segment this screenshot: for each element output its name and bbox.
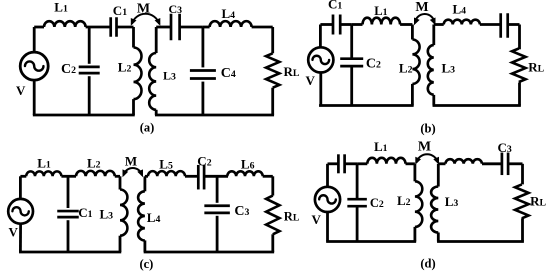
svg-text:L3: L3 (163, 69, 176, 83)
wire (b) L4 to cap (480, 23, 501, 26)
wire (c) L5 to C2 (185, 175, 198, 178)
wire (a) top from source to L1 (34, 26, 44, 29)
capacitor C3 (c) (204, 204, 230, 207)
svg-text:L4: L4 (222, 6, 236, 21)
capacitor C2 (b) (340, 57, 363, 60)
wire (a) L3 bottom (155, 110, 158, 115)
coil L3 (d) (437, 164, 440, 187)
svg-text:L3: L3 (445, 194, 459, 209)
wire (c) top L4 to L5 (145, 175, 148, 178)
wire (c) top to L1 (20, 175, 26, 178)
wire (b) top to C1 (320, 23, 333, 26)
svg-text:C1: C1 (78, 205, 92, 220)
capacitor C2 (c) (197, 165, 200, 190)
svg-text:L2: L2 (118, 60, 132, 75)
svg-text:V: V (312, 212, 322, 227)
mutual coupling M (a) (132, 14, 160, 24)
AC source V (d) (315, 187, 340, 212)
wire (b) right lower (518, 83, 521, 106)
wire (c) L1 to node (61, 175, 76, 178)
wire (a) L2 bottom (132, 99, 135, 115)
svg-text:RL: RL (530, 194, 546, 209)
coil L3 (b) (432, 25, 435, 46)
resistor RL (c) (266, 196, 279, 235)
wire (a) top C3 to node (180, 26, 203, 29)
wire (c) left top (19, 176, 22, 199)
svg-text:L3: L3 (442, 60, 456, 75)
capacitor C2 (d) (347, 198, 367, 201)
wire (a) node to L4 (203, 26, 210, 29)
svg-text:C1: C1 (113, 3, 127, 18)
wire (b) left top (319, 25, 322, 49)
svg-text:L5: L5 (159, 156, 173, 171)
AC source V (a) (20, 52, 48, 80)
wire (c) C1 branch lower (67, 220, 70, 252)
wire (c) C2 to node (204, 175, 228, 178)
inductor L1 (b) (363, 18, 401, 25)
svg-text:M: M (418, 139, 431, 154)
svg-text:L1: L1 (37, 155, 51, 170)
coil L3 (c) (119, 176, 122, 189)
wire (d) C3 to corner (508, 162, 522, 165)
svg-text:(b): (b) (420, 121, 435, 135)
svg-text:(c): (c) (139, 257, 153, 271)
svg-text:V: V (9, 225, 19, 240)
resistor RL (d) (515, 184, 529, 218)
capacitor C1 (d) (337, 154, 340, 173)
wire (a) right upper (271, 27, 274, 53)
svg-text:C3: C3 (498, 140, 512, 155)
svg-text:M: M (415, 0, 428, 15)
wire (d) right lower (521, 218, 524, 241)
svg-text:(a): (a) (140, 121, 155, 135)
wire (d) L3 bottom (437, 233, 440, 242)
capacitor C5 (b) (499, 13, 502, 38)
svg-text:C3: C3 (169, 2, 183, 16)
wire (a) C4 branch upper (201, 27, 204, 67)
wire (b) L3 bottom (432, 95, 435, 106)
svg-text:L1: L1 (54, 0, 68, 15)
inductor L1 (d) (367, 158, 405, 164)
wire (b) L1 to L2 (400, 23, 412, 26)
wire (b) C2 branch upper (350, 25, 353, 58)
wire (c) bottom secondary (144, 251, 275, 254)
svg-text:RL: RL (284, 64, 300, 79)
wire (b) right upper (518, 25, 521, 50)
svg-text:L3: L3 (100, 206, 114, 221)
wire (c) right upper (271, 176, 274, 195)
wire (a) bottom primary (33, 114, 135, 117)
svg-text:M: M (125, 153, 137, 168)
wire (a) left top (33, 27, 36, 52)
mutual coupling M (b) (415, 14, 435, 24)
capacitor C1 (a) (109, 17, 112, 37)
capacitor C1 (b) (332, 15, 335, 35)
wire (d) L1 to L2 (406, 162, 415, 165)
svg-text:V: V (16, 83, 26, 98)
wire (d) bottom primary (326, 240, 416, 243)
svg-text:C2: C2 (61, 62, 76, 77)
wire (d) L4 to C3 (482, 162, 502, 165)
svg-text:C2: C2 (197, 154, 211, 169)
svg-text:(d): (d) (420, 256, 435, 270)
wire (a) C4 branch lower (201, 82, 204, 115)
coil L3 (a) (155, 27, 158, 53)
wire (d) top L3 to L4 (438, 162, 445, 165)
AC source V (c) (8, 199, 33, 224)
wire (a) C2 branch upper (88, 27, 91, 64)
svg-text:C4: C4 (221, 66, 236, 81)
wire (a) top L4 to corner (252, 26, 273, 29)
svg-text:RL: RL (528, 60, 544, 75)
wire (d) cap to node (344, 162, 357, 165)
wire (d) left top (326, 164, 329, 188)
capacitor C2 (a) (79, 65, 100, 68)
svg-text:C2: C2 (366, 56, 381, 71)
wire (a) left bottom (33, 80, 36, 115)
coil L2 (b) (411, 25, 414, 40)
wire (d) C2 branch upper (356, 164, 359, 198)
svg-text:M: M (137, 1, 150, 16)
wire (b) node to L1 (352, 23, 363, 26)
mutual coupling M (d) (416, 154, 438, 163)
coil L4 (c) (143, 176, 146, 191)
svg-text:C2: C2 (370, 196, 384, 210)
svg-text:C1: C1 (328, 0, 342, 12)
wire (c) L6 to corner (263, 175, 273, 178)
svg-text:L4: L4 (147, 210, 161, 225)
inductor L4 (b) (444, 20, 480, 25)
wire (d) node to L1 (357, 162, 367, 165)
svg-text:L6: L6 (241, 156, 255, 171)
svg-text:L2: L2 (397, 193, 411, 208)
svg-text:V: V (306, 73, 316, 88)
wire (c) left bottom (19, 223, 22, 252)
wire (d) right upper (521, 164, 524, 185)
coil L2 (a) (132, 27, 135, 48)
inductor L2 (c) (76, 171, 115, 176)
svg-text:L1: L1 (374, 4, 387, 18)
capacitor C3 (d) (501, 153, 504, 176)
wire (d) C2 branch lower (356, 207, 359, 241)
resistor RL (a) (266, 53, 279, 87)
wire (a) C2 branch lower (88, 76, 91, 115)
wire (d) left bottom (326, 211, 329, 241)
wire (b) bottom primary (319, 104, 414, 107)
wire (c) L2 to L3 (115, 175, 120, 178)
coil L2 (d) (413, 164, 416, 182)
wire (d) L2 bottom (413, 227, 416, 242)
wire (a) top C1 to L2 (117, 26, 134, 29)
wire (d) bottom secondary (437, 240, 524, 243)
wire (b) L2 bottom (411, 84, 414, 106)
wire (c) bottom primary (19, 251, 121, 254)
AC source V (b) (308, 47, 333, 72)
wire (d) top to cap (328, 162, 339, 165)
inductor L5 (c) (148, 171, 185, 176)
svg-text:L1: L1 (374, 139, 388, 154)
wire (c) C1 branch upper (67, 176, 70, 208)
wire (b) cap to corner (508, 23, 520, 26)
mutual coupling M (c) (124, 168, 143, 175)
inductor L4 (a) (210, 21, 252, 27)
inductor L4 (d) (446, 159, 482, 164)
svg-text:RL: RL (284, 210, 300, 224)
svg-text:L2: L2 (399, 60, 413, 75)
capacitor C1 (c) (57, 210, 79, 213)
inductor L1 (a) (44, 21, 86, 27)
wire (a) top L1 to C1 (86, 26, 111, 29)
wire (a) top L3 to C3 (156, 26, 171, 29)
wire (c) L4 bottom (143, 240, 146, 252)
wire (b) bottom secondary (433, 104, 521, 107)
capacitor C4 (a) (190, 69, 216, 72)
wire (c) C3 branch lower (216, 216, 219, 252)
inductor L1 (c) (26, 171, 61, 176)
svg-text:L4: L4 (453, 2, 467, 17)
svg-text:C3: C3 (234, 204, 249, 219)
svg-text:L2: L2 (87, 155, 101, 170)
wire (b) top L3 to L4 (434, 23, 444, 26)
wire (b) C1 to node (340, 23, 352, 26)
wire (a) bottom secondary (155, 114, 274, 117)
wire (c) C3 branch upper (216, 176, 219, 203)
resistor RL (b) (512, 49, 526, 83)
inductor L6 (c) (227, 171, 262, 176)
capacitor C3 (a) (170, 14, 173, 41)
wire (c) right lower (271, 234, 274, 252)
wire (c) L3 bottom (119, 236, 122, 252)
wire (a) right lower (271, 88, 274, 115)
wire (b) left bottom (319, 72, 322, 106)
wire (b) C2 branch lower (350, 67, 353, 105)
